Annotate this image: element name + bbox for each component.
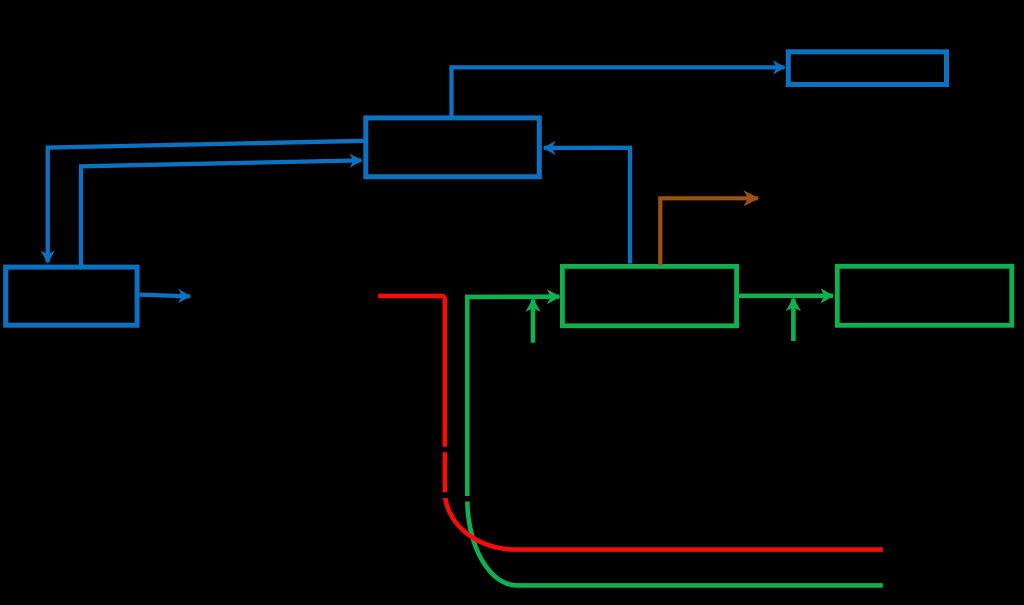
wire center-box-top to top-right box (blue arrow) (452, 67, 785, 117)
red curve line (378, 296, 883, 550)
green up arrow left (531, 299, 536, 342)
box top-right (blue) (788, 52, 946, 85)
wire middle green box top to center box (blue arrow left) (544, 148, 630, 264)
wire center box to lower-left box (blue arrow down) (48, 141, 365, 262)
output arrow from lower-left box (blue) (140, 295, 190, 297)
brown arrow from middle green box top (660, 198, 758, 265)
green curve from bottom into middle green box (arrow) (467, 297, 883, 586)
green arrow middle box to right box (739, 293, 833, 298)
box right (green) (837, 266, 1012, 325)
gap in red line 1 (441, 447, 448, 452)
green up arrow right (791, 299, 796, 341)
gap in red line 2 (441, 492, 449, 498)
box lower-left (blue) (6, 267, 137, 325)
box center (blue) (366, 118, 540, 177)
wire lower-left box to center box (blue arrow right) (81, 160, 361, 266)
box middle (green) (562, 266, 736, 325)
gap in green line (463, 496, 472, 502)
